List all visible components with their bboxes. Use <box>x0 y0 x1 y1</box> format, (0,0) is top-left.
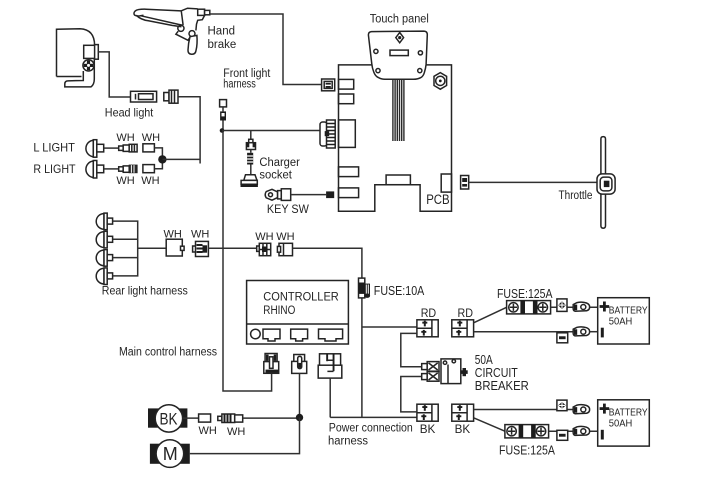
wire R bulb to plug <box>104 168 119 170</box>
BK WH socket <box>199 414 211 422</box>
L light WH socket <box>143 144 155 152</box>
svg-text:CIRCUIT: CIRCUIT <box>475 366 518 380</box>
rear WH socket <box>166 239 184 256</box>
svg-text:FUSE:125A: FUSE:125A <box>497 287 553 301</box>
mid WH plug (grid) <box>257 243 271 255</box>
wire hand brake to PCB connector <box>210 14 322 85</box>
wire BK chain to node <box>243 417 300 419</box>
wire M to node <box>190 418 300 454</box>
minus terminal box battery 1 <box>557 333 568 343</box>
svg-text:50A: 50A <box>475 353 494 367</box>
controller plug 3 <box>318 354 342 378</box>
svg-text:WH: WH <box>142 132 160 144</box>
wire ring to battery1 <box>590 331 598 333</box>
PCB board outline <box>339 65 452 211</box>
RD connector 1 <box>417 320 438 337</box>
wire RD2 diagonal to fuse holder 1 <box>474 307 507 323</box>
power harness wire <box>330 416 417 418</box>
wire from head light to connector <box>98 52 130 97</box>
brake BK unit <box>148 405 187 432</box>
wire RD2 to battery1 minus <box>474 331 574 333</box>
rear bulb 3 <box>96 250 112 267</box>
R light bulb <box>86 161 104 179</box>
PCB throttle connector <box>461 176 469 190</box>
svg-text:WH: WH <box>141 175 159 187</box>
wire to RD connector <box>362 326 417 328</box>
svg-text:WH: WH <box>191 229 209 241</box>
touch panel ribbon cable <box>393 79 404 141</box>
junction node motor/brake <box>296 414 303 421</box>
front harness plug (filled) <box>220 107 226 121</box>
PCB pad 3 <box>339 167 359 177</box>
motor M unit <box>150 440 190 468</box>
wire plug2 down to motor node <box>299 373 301 417</box>
svg-text:WH: WH <box>199 425 217 437</box>
L light plug WH <box>119 144 137 152</box>
svg-text:Hand: Hand <box>208 25 236 37</box>
wire rear harness to WH connector <box>138 247 167 249</box>
wire BK2 to battery2 plus <box>474 409 574 411</box>
svg-text:Charger: Charger <box>259 157 300 169</box>
wire junction to headlight net <box>162 158 200 160</box>
svg-text:WH: WH <box>276 231 294 243</box>
svg-text:harness: harness <box>328 436 368 448</box>
touch panel top hole <box>396 33 404 43</box>
rear harness collector wires <box>113 221 138 276</box>
touch panel body <box>368 31 427 79</box>
PCB main connector <box>339 120 356 147</box>
wire to socket <box>250 165 252 175</box>
wire RD1 to breaker <box>401 333 422 366</box>
front harness connector (open square) <box>220 100 227 107</box>
charger plug <box>246 139 255 149</box>
wire key sw to PCB <box>291 194 326 196</box>
RD connector 2 <box>452 320 474 337</box>
svg-text:WH: WH <box>227 426 245 438</box>
ring terminal battery1 plus <box>573 302 589 311</box>
svg-text:socket: socket <box>259 170 292 182</box>
wire to mid connectors <box>208 247 256 249</box>
wire PCB to throttle <box>469 181 597 183</box>
svg-text:Rear light harness: Rear light harness <box>102 284 188 298</box>
ring terminal battery1 minus <box>573 327 589 336</box>
throttle grip <box>597 174 615 194</box>
mid WH socket <box>277 243 292 255</box>
svg-text:WH: WH <box>116 175 134 187</box>
PCB barrel connector (front harness) <box>320 120 335 148</box>
rear bulb 1 <box>96 213 112 230</box>
junction node front harness <box>220 128 225 133</box>
touch panel slot <box>390 50 408 56</box>
key SW barrel <box>278 189 291 201</box>
fuse 10A body <box>359 278 371 298</box>
wire BK2 diagonal to fuse holder 2 <box>474 418 505 431</box>
PCB pad 4 <box>339 188 359 198</box>
svg-text:50AH: 50AH <box>609 418 633 430</box>
head light plug <box>164 90 178 103</box>
svg-text:50AH: 50AH <box>609 316 633 328</box>
touch panel screw holes <box>374 49 378 53</box>
BK connector 2 <box>452 404 474 421</box>
svg-text:BREAKER: BREAKER <box>475 379 529 393</box>
svg-text:PCB: PCB <box>426 192 450 207</box>
svg-text:BK: BK <box>160 410 179 429</box>
svg-text:FUSE:10A: FUSE:10A <box>374 284 425 298</box>
svg-text:Main control harness: Main control harness <box>119 347 217 359</box>
wire plug3 down to power harness <box>329 378 331 417</box>
wire BK to WH <box>183 417 199 419</box>
L light bulb <box>86 140 104 158</box>
R light plug WH <box>119 165 137 173</box>
plus terminal box battery 2 <box>557 400 567 411</box>
svg-text:BK: BK <box>455 422 471 436</box>
fuse holder 125A (bottom) <box>505 425 549 438</box>
wire plug down to node <box>222 121 224 131</box>
svg-text:RHINO: RHINO <box>263 305 295 317</box>
PCB pad 2 <box>339 94 354 104</box>
BK WH plug (striped) <box>218 414 243 423</box>
minus terminal box battery 2 <box>557 430 568 440</box>
svg-text:harness: harness <box>223 79 256 91</box>
PCB left top connector (from hand brake) <box>322 79 335 91</box>
plus terminal box battery 1 <box>557 299 567 312</box>
charger inline fuse (striped) <box>247 153 253 165</box>
battery 1 <box>598 298 650 344</box>
PCB bottom connector strip <box>386 175 410 185</box>
breaker terminal upper <box>422 362 439 372</box>
head light connector <box>131 91 157 102</box>
svg-text:Power connection: Power connection <box>329 423 413 435</box>
svg-text:brake: brake <box>208 39 237 51</box>
wire breaker to BK1 <box>401 377 422 412</box>
svg-text:M: M <box>163 444 178 464</box>
wire branch to charger plug <box>250 131 252 141</box>
wire fuse1 to battery 1 plus <box>551 306 598 308</box>
hand brake lever <box>134 8 210 54</box>
svg-text:BK: BK <box>420 422 436 436</box>
rear WH plug (striped) <box>193 241 209 256</box>
wire L socket to junction <box>154 148 162 160</box>
rear bulb 4 <box>96 268 112 285</box>
svg-text:RD: RD <box>421 306 437 320</box>
svg-text:CONTROLLER: CONTROLLER <box>263 292 339 304</box>
wire node to PCB barrel connector <box>222 130 320 132</box>
throttle handlebar <box>601 137 606 229</box>
PCB right square <box>441 174 451 192</box>
svg-text:Touch panel: Touch panel <box>370 14 429 26</box>
rear bulb 2 <box>96 231 112 248</box>
charger cable stub <box>250 150 252 153</box>
head light adjuster screw <box>83 60 94 71</box>
wire node down to controller harness <box>223 131 272 392</box>
head light lamp housing <box>57 29 95 77</box>
svg-text:FUSE:125A: FUSE:125A <box>499 444 556 458</box>
wire bus to corner <box>293 248 362 417</box>
breaker 50A body <box>441 359 468 384</box>
wire L bulb to plug <box>104 147 119 149</box>
controller plug 2 <box>292 355 307 374</box>
battery 2 <box>598 400 650 446</box>
wire R socket to junction <box>154 159 162 168</box>
head light bracket foot <box>65 59 95 87</box>
charger socket body <box>241 175 258 187</box>
controller socket 2 <box>291 329 308 341</box>
controller divider <box>247 323 349 325</box>
R light WH socket <box>143 165 155 173</box>
controller socket 3 <box>319 329 343 341</box>
svg-text:WH: WH <box>164 229 182 241</box>
svg-text:RD: RD <box>458 306 474 320</box>
svg-text:WH: WH <box>255 231 273 243</box>
svg-text:L LIGHT: L LIGHT <box>33 141 75 155</box>
key sw PCB connector (black) <box>326 191 334 198</box>
wire head light plug to junction <box>178 97 200 164</box>
svg-text:Throttle: Throttle <box>559 190 593 202</box>
PCB mount screw (hex) <box>434 73 447 90</box>
svg-text:R LIGHT: R LIGHT <box>33 162 76 176</box>
junction node L/R lights <box>158 155 166 163</box>
svg-text:KEY SW: KEY SW <box>267 204 309 216</box>
controller pilot circle <box>251 329 261 339</box>
fuse holder 125A (top) <box>507 301 551 314</box>
head light socket box <box>84 45 99 60</box>
breaker terminal lower <box>422 372 439 382</box>
ring terminal battery2 plus <box>573 405 589 414</box>
controller plug 1 <box>264 354 279 374</box>
controller socket 1 <box>263 329 280 341</box>
BK connector 1 <box>417 404 438 421</box>
key SW key <box>265 189 277 200</box>
ring terminal battery2 minus <box>573 426 589 435</box>
PCB pad 1 <box>339 79 354 89</box>
svg-text:Head light: Head light <box>105 106 154 120</box>
wire fuse2 to battery2 minus <box>549 430 598 432</box>
controller box <box>247 281 349 345</box>
svg-text:WH: WH <box>116 132 134 144</box>
